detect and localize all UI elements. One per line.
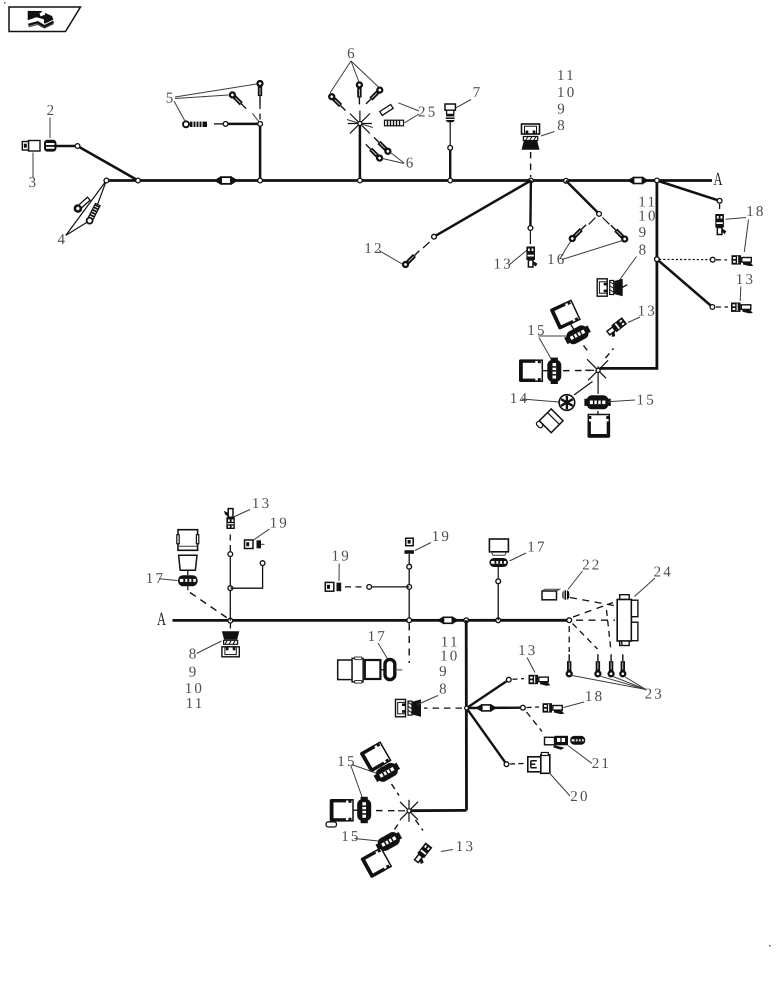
- star node bottom: [398, 800, 418, 822]
- svg-text:9: 9: [639, 225, 649, 241]
- wire dash 15d: [392, 784, 400, 796]
- svg-text:23: 23: [645, 686, 664, 702]
- node bottom j1: [228, 618, 233, 623]
- terminal blade 4a: [74, 196, 91, 212]
- wire riser 13f: [229, 554, 231, 621]
- leader 12: [379, 251, 403, 265]
- node 17c: [496, 579, 501, 584]
- svg-text:5: 5: [166, 91, 176, 107]
- wire dash 18b: [716, 259, 727, 261]
- wire dash 15b: [563, 369, 590, 371]
- wire dash 15e: [376, 810, 398, 812]
- leader 6 bottom: [383, 159, 405, 164]
- leader 13 star: [628, 317, 640, 323]
- svg-text:9: 9: [439, 664, 449, 680]
- wire dash drop b1: [568, 626, 570, 652]
- node 19b: [260, 561, 265, 566]
- svg-text:10: 10: [185, 681, 204, 697]
- svg-text:8: 8: [557, 118, 567, 134]
- node right mid: [655, 257, 660, 262]
- connector C2: [44, 140, 56, 152]
- wire X right + splice: [467, 707, 521, 710]
- plug 15e tab: [326, 822, 337, 827]
- node riser 19 top: [407, 564, 412, 569]
- svg-text:24: 24: [654, 564, 673, 580]
- svg-text:17: 17: [527, 539, 546, 555]
- leader 8a: [541, 132, 555, 137]
- svg-text:6: 6: [347, 46, 357, 62]
- wire dash 15f: [395, 821, 401, 830]
- node riser 19 mid: [407, 585, 412, 590]
- wire dash 17b drop: [408, 624, 410, 664]
- node bottom j2: [407, 618, 412, 623]
- leader 14: [522, 399, 559, 402]
- connector C22: [542, 589, 569, 600]
- wire dash 22 to 24: [570, 598, 614, 606]
- tick at node 5: [252, 113, 262, 125]
- svg-text:A: A: [714, 170, 723, 190]
- connector C13b: [731, 303, 753, 314]
- node bottom right end: [567, 618, 572, 623]
- plug 15d square: [359, 742, 390, 773]
- wire vertical right: [656, 181, 659, 370]
- leader 17b: [378, 643, 387, 659]
- wire branch 19b: [230, 566, 262, 589]
- node branch2 corner: [75, 144, 80, 149]
- wire 18a branch: [657, 181, 720, 201]
- connector C8b: [597, 279, 623, 296]
- wire dash drop b4: [622, 641, 623, 650]
- wire dash 8b: [622, 284, 630, 288]
- svg-text:7: 7: [473, 85, 483, 101]
- wire dash 17a to node: [190, 593, 228, 619]
- wire stub 16a: [589, 218, 596, 225]
- svg-text:9: 9: [557, 101, 567, 117]
- wire main harness bottom: [173, 619, 570, 622]
- plug 15a link: [571, 324, 575, 331]
- wire riser 17c: [497, 584, 499, 621]
- wire 15c stub: [597, 383, 599, 394]
- plug 15b oval: [547, 358, 561, 384]
- node 18a: [717, 198, 722, 203]
- plug 15f link: [382, 849, 385, 854]
- leader 13d: [527, 658, 535, 673]
- plug 15b square: [519, 359, 542, 382]
- wire dash 18c: [527, 706, 540, 709]
- node bottom j3: [464, 618, 469, 623]
- node 20: [504, 762, 509, 767]
- leader 5: [175, 84, 257, 97]
- leader 19d: [415, 543, 431, 551]
- svg-text:20: 20: [570, 789, 589, 805]
- wire dash 20: [510, 763, 524, 766]
- svg-text:15: 15: [637, 392, 656, 408]
- connector C19d: [405, 538, 414, 556]
- connector C17b: [338, 657, 403, 683]
- plug 15a oval: [563, 322, 593, 347]
- bullet 6a: [328, 93, 347, 112]
- svg-text:13: 13: [736, 272, 755, 288]
- leader 19b: [254, 529, 270, 540]
- connector C13f: [224, 509, 235, 529]
- wire dash stub 5: [214, 123, 223, 125]
- wire X up-right: [467, 680, 509, 708]
- wire dash to 13f: [229, 531, 231, 551]
- node bottom j4: [496, 618, 501, 623]
- node X bottom: [465, 706, 469, 710]
- wire dash 19c: [345, 586, 366, 588]
- wire dash node to 24 left: [576, 619, 615, 621]
- snowflake 14: [559, 395, 575, 411]
- svg-text:15: 15: [341, 829, 360, 845]
- leader 20: [549, 773, 570, 797]
- wire dash 13b: [716, 306, 728, 308]
- wire main harness top: [107, 179, 712, 182]
- leader 13 mid: [509, 251, 527, 266]
- wire branch 12: [434, 181, 531, 237]
- connector C19b: [245, 540, 265, 549]
- connector C21: [545, 736, 569, 750]
- connector C18c: [543, 703, 565, 714]
- svg-text:19: 19: [332, 548, 351, 564]
- bullet 6f: [364, 143, 383, 162]
- svg-text:8: 8: [439, 682, 449, 698]
- leader 18: [726, 218, 747, 220]
- svg-text:13: 13: [456, 839, 475, 855]
- wire branch 6 riser: [359, 124, 362, 181]
- svg-text:8: 8: [639, 243, 649, 259]
- bullet 23b: [595, 654, 600, 676]
- wire 13a short: [529, 231, 531, 245]
- connector C18b: [732, 255, 754, 266]
- connector C21 oval: [570, 736, 585, 745]
- svg-text:12: 12: [364, 241, 383, 257]
- box 14: [536, 408, 564, 436]
- bullet 23a: [567, 654, 572, 676]
- wire 7 drop: [449, 126, 451, 146]
- bullet 12: [402, 249, 421, 268]
- plug 15f square: [360, 847, 391, 878]
- wire dash drop b2: [573, 624, 598, 650]
- wire dotted to 18b: [659, 258, 710, 260]
- plug 15f oval: [374, 829, 404, 854]
- wire branch to connector 2: [56, 146, 138, 181]
- connector C19c: [325, 582, 341, 591]
- plug 15c square: [588, 415, 611, 438]
- splice S1: [214, 176, 239, 185]
- blade 25a: [380, 104, 393, 115]
- leader 8c: [197, 641, 222, 654]
- leader 3: [32, 153, 34, 179]
- leader 21: [568, 746, 592, 764]
- leader 2: [49, 118, 51, 139]
- leader 17a: [159, 579, 178, 581]
- svg-text:18: 18: [585, 689, 604, 705]
- wire to snowflake: [574, 382, 593, 396]
- node 7 drop mid: [448, 145, 453, 150]
- node 19c: [367, 585, 372, 590]
- leader 25: [398, 103, 419, 111]
- node 13b: [710, 305, 715, 310]
- plug 15e oval: [357, 797, 371, 823]
- leader 7: [456, 100, 471, 108]
- wire dash 13d: [513, 678, 525, 681]
- connector C13g: [606, 317, 629, 338]
- connector C8d: [396, 699, 422, 716]
- relay 24: [617, 595, 638, 646]
- bullet 23d: [620, 654, 625, 676]
- logo mark: [28, 11, 54, 25]
- svg-text:15: 15: [337, 754, 356, 770]
- leader 16: [560, 242, 571, 259]
- svg-text:17: 17: [368, 629, 387, 645]
- svg-text:6: 6: [406, 156, 416, 172]
- node main j2: [136, 178, 141, 183]
- wire elbow to star: [600, 367, 657, 370]
- plug 15d link: [381, 766, 384, 771]
- bullet 16a: [569, 223, 588, 242]
- star node top cluster: [585, 359, 608, 383]
- wire dash X left to 8d: [424, 707, 462, 709]
- svg-text:13: 13: [518, 643, 537, 659]
- node main at 6 riser: [358, 178, 363, 183]
- svg-text:16: 16: [547, 252, 566, 268]
- leader 17c: [510, 553, 527, 561]
- leader 13f: [234, 510, 250, 518]
- node branch5 corner: [258, 122, 263, 127]
- bullet 6b: [357, 82, 362, 104]
- leader 15 top: [539, 335, 568, 337]
- terminal coil 5c: [183, 121, 207, 127]
- svg-text:18: 18: [746, 204, 765, 220]
- logo frame: [9, 7, 81, 32]
- svg-text:19: 19: [432, 529, 451, 545]
- node riser mid1: [228, 586, 233, 591]
- node 13a drop: [528, 226, 533, 231]
- splice S2: [627, 177, 649, 185]
- wire X down-right: [467, 708, 507, 764]
- wire dash 8a drop: [530, 152, 532, 177]
- node 18b: [710, 257, 715, 262]
- svg-text:13: 13: [252, 496, 271, 512]
- svg-text:11: 11: [186, 696, 205, 712]
- connector C8c: [222, 631, 239, 657]
- corner dot: [4, 2, 6, 4]
- svg-text:9: 9: [189, 665, 199, 681]
- node main at 7: [448, 178, 453, 183]
- wire branch 19c: [372, 586, 410, 588]
- svg-text:8: 8: [189, 647, 199, 663]
- wire dash 13e: [416, 820, 424, 831]
- leader 22: [568, 571, 583, 590]
- svg-text:2: 2: [47, 103, 57, 119]
- leader 13e: [441, 850, 453, 852]
- leader 13 right: [739, 287, 742, 302]
- plug 15d oval: [372, 760, 402, 785]
- connector C13d: [529, 675, 551, 686]
- connector C17c: [489, 539, 508, 579]
- connector C13a: [526, 247, 537, 268]
- svg-text:21: 21: [592, 756, 611, 772]
- node branch5 left: [223, 122, 228, 127]
- node branch16: [597, 212, 602, 217]
- wire kite branch 4: [66, 181, 107, 236]
- splice S4: [475, 704, 497, 712]
- leader 15 right: [608, 400, 636, 402]
- plug 15e square: [330, 799, 353, 822]
- wire dash 13g: [606, 349, 614, 359]
- node 13d: [506, 677, 511, 682]
- svg-text:22: 22: [582, 557, 601, 573]
- wire stub 16b: [603, 218, 610, 225]
- star node 6: [347, 111, 373, 134]
- svg-text:13: 13: [638, 303, 657, 319]
- leader 8b: [620, 257, 637, 281]
- leader 15d: [352, 765, 378, 774]
- connector C20: [528, 753, 550, 774]
- svg-text:25: 25: [418, 104, 437, 120]
- leader 18c: [564, 702, 585, 708]
- connector C7: [445, 104, 455, 126]
- svg-text:4: 4: [58, 232, 68, 248]
- coil 25b: [385, 120, 404, 126]
- leader 15f: [355, 839, 379, 842]
- wire dash 8c: [229, 624, 231, 632]
- connector C18a: [715, 214, 726, 235]
- wire elbow bottom star: [411, 809, 467, 812]
- node main at 5 riser: [258, 178, 263, 183]
- node riser top1: [228, 552, 233, 557]
- node branch12 end: [432, 234, 437, 239]
- svg-text:11: 11: [557, 68, 576, 84]
- node main at 8a: [529, 178, 534, 183]
- svg-text:A: A: [157, 610, 166, 630]
- bullet 6c: [364, 87, 383, 106]
- wire dash 18a: [719, 204, 721, 212]
- wire 13b branch: [657, 259, 713, 307]
- wire stub 12: [423, 242, 430, 248]
- leader 23: [572, 676, 646, 690]
- wire dash drop b3: [607, 610, 611, 649]
- leader 19c: [338, 564, 340, 582]
- connector C13e: [413, 842, 434, 865]
- wire branch 16: [566, 181, 599, 214]
- bullet 5a vertical: [258, 81, 263, 103]
- splice S3: [437, 616, 459, 624]
- svg-text:10: 10: [440, 648, 459, 664]
- bullet 6g: [372, 136, 391, 155]
- bullet 16b: [609, 223, 628, 242]
- bullet 23c: [609, 654, 614, 676]
- wire drop 13a: [529, 181, 532, 226]
- bullet 5b slanted: [229, 91, 248, 110]
- leader 6 top: [330, 61, 351, 93]
- node 18c: [521, 705, 526, 710]
- connector C8a: [522, 124, 540, 150]
- svg-text:10: 10: [638, 209, 657, 225]
- svg-text:19: 19: [270, 515, 289, 531]
- terminal coil 4b: [87, 203, 100, 223]
- wire branch 5 riser: [226, 124, 261, 181]
- plug 15b link: [543, 370, 548, 372]
- wire dash to 21: [527, 712, 543, 732]
- connector C17a: [177, 530, 199, 591]
- svg-text:10: 10: [557, 85, 576, 101]
- node main right junction: [655, 178, 660, 183]
- wire riser 19cd: [408, 556, 410, 621]
- plug 15a square: [550, 300, 581, 330]
- leader 24: [635, 578, 656, 597]
- wire dash below bullet 5a: [259, 103, 261, 120]
- connector C3: [29, 141, 41, 152]
- plug 15e link: [353, 809, 358, 811]
- plug 15c link: [597, 411, 599, 415]
- node main left end: [104, 178, 109, 183]
- plug 15c oval: [584, 395, 610, 409]
- leader 8d: [418, 696, 439, 705]
- node main at 16 branch: [564, 178, 569, 183]
- wire dash node to 24 top: [573, 603, 613, 618]
- wire dash 15a: [584, 346, 591, 355]
- wire vertical bottom: [465, 620, 468, 810]
